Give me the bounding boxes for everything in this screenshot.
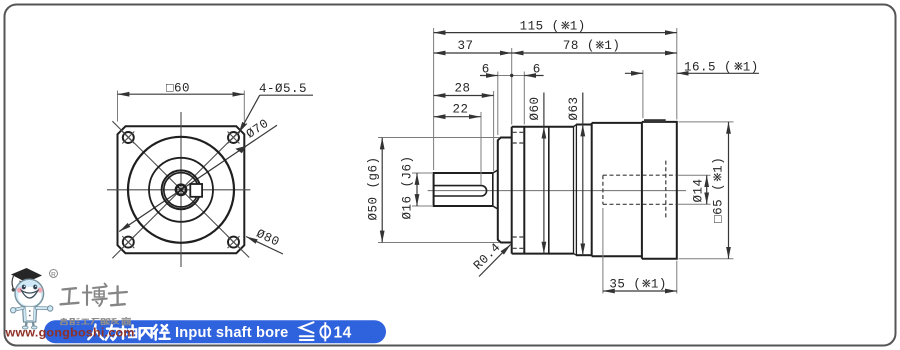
banner pill [44, 320, 386, 343]
horizontal centerline [107, 189, 250, 191]
flange bolt hole hidden lines [513, 131, 524, 133]
dim 37 [434, 52, 512, 54]
key square [190, 184, 202, 197]
banner CJK: jing [154, 325, 170, 340]
gongboshi calligraphy: shi [109, 292, 127, 294]
shaft joint line [492, 173, 494, 206]
dim D63 [582, 93, 584, 125]
D63 ring section [576, 124, 592, 126]
banner CJK: nei [140, 328, 152, 339]
svg-text:1): 1) [651, 278, 667, 292]
banner CJK: zhou [120, 325, 136, 339]
diagonal BL-TR [112, 124, 247, 259]
dim square65 [728, 122, 730, 259]
bolt hole TL [122, 132, 134, 144]
dim D14 [706, 175, 708, 204]
svg-text:37: 37 [457, 39, 473, 53]
dim 22 [434, 116, 481, 118]
svg-text:28: 28 [454, 81, 470, 95]
dimension D70 diameter line [119, 125, 277, 231]
vertical centerline [180, 112, 182, 267]
bolt hole TR [228, 132, 240, 144]
pilot circle D50 [128, 137, 234, 243]
case joint [548, 127, 550, 254]
body top edge [512, 126, 574, 128]
banner leq symbol [300, 322, 314, 340]
label 4-D5.5 leader [260, 94, 313, 96]
svg-text:Ø60: Ø60 [528, 96, 542, 120]
shaft flare top [493, 170, 498, 173]
mascot cheeks [17, 287, 22, 292]
svg-text:4-Ø5.5: 4-Ø5.5 [259, 82, 307, 96]
hidden face hole [665, 161, 667, 219]
dim 16.5 [625, 72, 643, 74]
svg-text:Input shaft bore: Input shaft bore [175, 325, 288, 341]
step chamfer pair [573, 127, 575, 254]
dim 6 flange [524, 75, 543, 77]
bolt hole BR [228, 236, 240, 248]
zhineng gongchang fuwushang small gray text [61, 317, 132, 325]
svg-text:Ø63: Ø63 [567, 96, 581, 120]
mascot eyes [22, 285, 26, 290]
shaft bore slot [434, 186, 487, 196]
dim D60 [543, 93, 545, 127]
svg-text:1): 1) [712, 157, 726, 173]
svg-text:16.5 (: 16.5 ( [684, 60, 732, 74]
flange square outline [118, 126, 245, 253]
svg-text:14: 14 [334, 325, 352, 342]
double circle outer [162, 170, 201, 209]
shaft flare bottom [493, 206, 498, 209]
dim 6 boss [480, 75, 498, 77]
svg-text:78 (: 78 ( [563, 39, 595, 53]
dim D50 g6 [381, 138, 383, 243]
label D80 leader [246, 237, 283, 255]
body bottom edge [512, 253, 574, 255]
svg-text:115 (: 115 ( [520, 20, 560, 34]
dim 115 [434, 32, 677, 34]
mascot legs [26, 322, 34, 326]
banner CJK: ru [88, 325, 169, 340]
svg-text:1): 1) [743, 60, 759, 74]
mascot body [23, 307, 37, 323]
bolt hole BL [122, 236, 134, 248]
svg-text:□60: □60 [166, 82, 190, 96]
svg-text:1): 1) [570, 20, 586, 34]
gongboshi calligraphy: gong [61, 284, 127, 307]
dim 35 [603, 290, 677, 292]
svg-text:Ø16 (J6): Ø16 (J6) [401, 155, 415, 219]
mascot head [15, 279, 44, 308]
mascot tassel [12, 276, 13, 289]
registered mark [50, 270, 58, 278]
cap top tab [644, 119, 666, 122]
dimension square60 extension lines [117, 91, 119, 122]
inner circle D31 [149, 158, 213, 222]
svg-text:1): 1) [604, 39, 620, 53]
main housing [592, 122, 642, 124]
svg-text:6: 6 [482, 62, 490, 76]
extension lines [433, 28, 435, 170]
banner phi 14 [320, 322, 330, 341]
mascot cap [11, 268, 42, 283]
gongboshi calligraphy: bo [86, 286, 88, 306]
input shaft outline [434, 173, 493, 206]
boss D50 register [498, 138, 512, 243]
dim 28 [434, 95, 494, 97]
diagonal TL-BR [112, 121, 249, 257]
svg-text:35 (: 35 ( [609, 278, 641, 292]
hidden output bore [603, 174, 676, 176]
double circle inner [164, 173, 198, 207]
svg-text:Ø14: Ø14 [692, 178, 706, 202]
flange plate [511, 127, 513, 254]
svg-text:www.gongboshi.com: www.gongboshi.com [5, 326, 135, 340]
dim D16 J6 [416, 173, 418, 206]
dimension square60 [118, 93, 245, 95]
mascot mouth [22, 291, 38, 299]
center hub small circle [176, 185, 186, 195]
svg-text:R: R [51, 271, 56, 278]
output end cap [642, 122, 677, 259]
svg-text:□65 (: □65 ( [712, 183, 726, 223]
dim 78 [512, 52, 677, 54]
centerline [428, 190, 686, 192]
mascot arms [15, 308, 23, 310]
banner CJK: li [106, 325, 119, 340]
svg-text:6: 6 [533, 62, 541, 76]
svg-text:Ø50 (g6): Ø50 (g6) [367, 156, 381, 220]
svg-text:22: 22 [452, 103, 468, 117]
leader R0.4 [479, 245, 511, 277]
